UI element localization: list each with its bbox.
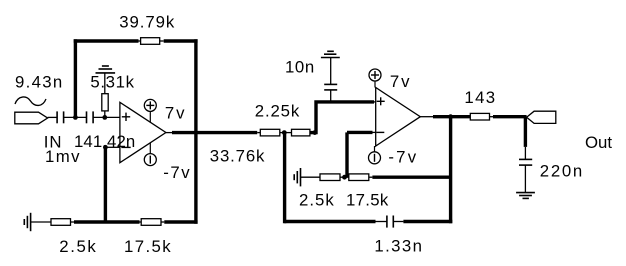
input port IN (15, 112, 81, 166)
op-amp U1 (120, 102, 166, 162)
wire inverting input U1 (105, 146, 120, 148)
wire R8 to feedback vertical (thick) (372, 175, 450, 178)
svg-text:17.5k: 17.5k (346, 191, 389, 210)
wire node D down (thick) (283, 133, 286, 224)
output port Out (527, 111, 613, 152)
resistor R8 17.5k (345, 174, 389, 210)
wire ground to R7 (301, 176, 321, 178)
resistor R3 2.5k (51, 219, 97, 256)
node F junction dot (342, 175, 347, 180)
node C junction dot (103, 145, 108, 150)
resistor R4 17.5k (124, 219, 172, 256)
svg-text:17.5k: 17.5k (124, 237, 172, 256)
wire U1 output to stage 2 (thick) (172, 131, 257, 134)
node E junction dot (312, 130, 317, 135)
svg-text:1.33n: 1.33n (374, 237, 423, 256)
svg-text:2.5k: 2.5k (59, 237, 97, 256)
wire R4 to feedback vertical (thick) (164, 220, 197, 223)
svg-text:-7v: -7v (388, 148, 418, 167)
svg-text:-7v: -7v (163, 163, 191, 182)
power V+ U2 (369, 69, 411, 91)
node D junction dot (282, 130, 287, 135)
resistor R6 2.25k (255, 102, 310, 136)
wire top feedback left segment (thick) (74, 39, 139, 42)
svg-text:5.31k: 5.31k (90, 73, 134, 92)
svg-text:220n: 220n (540, 161, 584, 180)
node A junction dot (73, 115, 78, 120)
wire U2 - down to divider (thick) (345, 132, 348, 177)
power V- U2 (369, 146, 419, 167)
power V- U1 (144, 143, 191, 183)
ground G2 stage1 divider (24, 213, 30, 231)
node B junction dot (102, 115, 107, 120)
wire feedback vertical stage2 (thick) (449, 117, 452, 224)
svg-text:2.5k: 2.5k (299, 191, 335, 210)
wire U2 output (thick) (433, 115, 470, 118)
svg-text:Out: Out (585, 133, 612, 152)
wire lead into U2 + (374, 101, 376, 103)
capacitor C1 9.43n (15, 73, 64, 124)
ground G5 below 220n (516, 193, 535, 199)
resistor R1 39.79k (119, 13, 175, 45)
power V+ U1 (144, 99, 186, 122)
op-amp U2 (376, 88, 421, 147)
source sine squiggle (15, 97, 46, 105)
wire R3 to R4 (thick) (74, 220, 140, 223)
wire stage2 bottom right (thick) (403, 220, 452, 223)
wire node A up to feedback (thick) (74, 39, 77, 117)
capacitor C5 220n (519, 147, 584, 193)
wire C2 to op-amp (93, 116, 120, 118)
wire R6 to node E (thick) (310, 131, 316, 134)
svg-text:2.25k: 2.25k (255, 102, 300, 121)
wire node C down to divider (thick) (104, 147, 107, 222)
wire top feedback right segment (thick) (164, 39, 198, 42)
wire C1 to C2 (64, 116, 87, 118)
wire U1 output lead (166, 132, 172, 134)
ground G4 stage2 divider (294, 168, 300, 186)
svg-text:39.79k: 39.79k (119, 13, 175, 32)
node G junction dot (448, 114, 453, 119)
svg-text:9.43n: 9.43n (15, 73, 64, 92)
resistor R9 143 (464, 88, 496, 120)
wire ground to R3 (31, 221, 51, 223)
svg-text:10n: 10n (285, 58, 315, 77)
ground G1 above 5.31k (96, 66, 116, 73)
capacitor C4 1.33n (374, 216, 423, 256)
resistor R7 2.5k (299, 174, 345, 210)
resistor R5 33.76k (210, 129, 284, 165)
ground G3 above 10n (321, 51, 340, 57)
svg-text:7v: 7v (165, 104, 187, 123)
wire feedback right vertical (thick) (194, 39, 197, 223)
svg-text:143: 143 (464, 88, 496, 107)
capacitor C2 141.42n (87, 111, 94, 123)
capacitor C3 10n (285, 58, 337, 102)
wire U2 output lead (420, 116, 433, 118)
resistor R2 5.31k (vertical) (90, 73, 134, 118)
wire port to C1 (48, 116, 58, 118)
wire output node down (thick) (524, 117, 527, 147)
svg-text:33.76k: 33.76k (210, 147, 265, 166)
wire U2 inverting input (thick) (347, 131, 373, 134)
wire stage2 bottom left (thick) (284, 220, 375, 223)
svg-text:7v: 7v (390, 72, 412, 91)
wire R9 to output port (thick) (493, 115, 527, 118)
wire node E up and to U2 + (thick) (316, 102, 374, 134)
wire lead into U2 - (373, 131, 376, 133)
